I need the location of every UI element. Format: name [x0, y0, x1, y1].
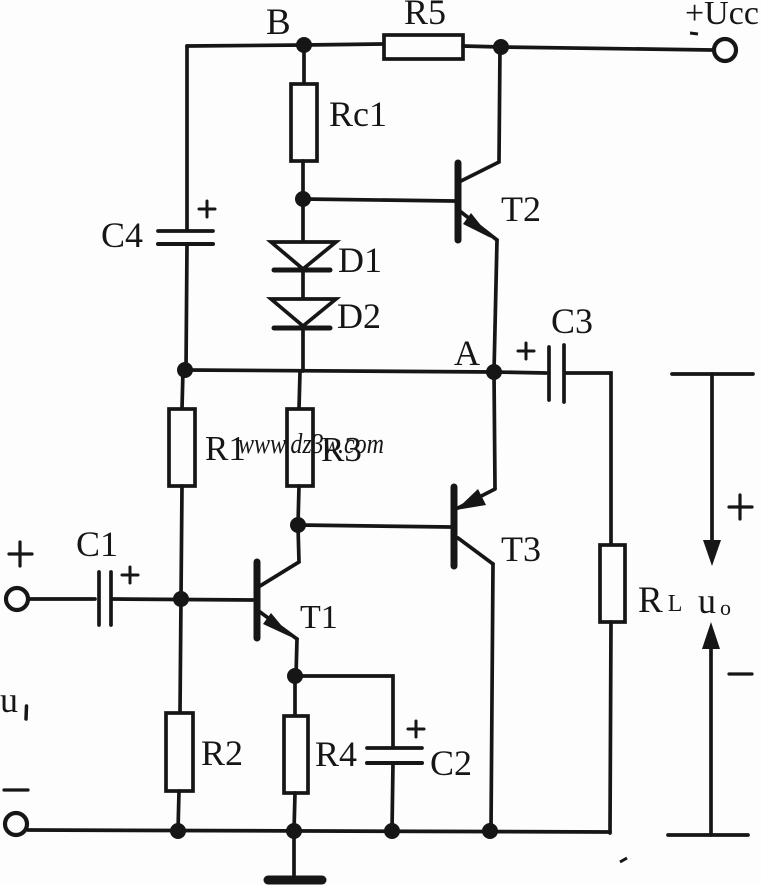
wire bottom rail [28, 830, 610, 832]
node junction dot T1 collector / T3 base [290, 517, 306, 533]
node junction dot T1 emitter [287, 668, 303, 684]
node junction dot at R5 right / T2 collector [493, 39, 509, 55]
svg-text:RL: RL [638, 580, 682, 621]
svg-text:C3: C3 [551, 301, 593, 341]
svg-text:R4: R4 [315, 734, 357, 774]
artifact dash below +Ucc [620, 33, 698, 862]
wire left branch down to C4 [185, 46, 189, 230]
wire D1 to D2 [301, 271, 305, 299]
svg-text:+Ucc: +Ucc [685, 0, 759, 32]
svg-text:R5: R5 [404, 0, 446, 32]
node A junction dot [486, 364, 502, 380]
svg-text:B: B [266, 2, 291, 43]
minus sign u_o [729, 672, 752, 675]
svg-text:C1: C1 [76, 524, 118, 564]
voltage indicator u_o bottom bar [668, 833, 748, 837]
plus sign input [9, 542, 32, 566]
svg-text:C2: C2 [430, 743, 472, 783]
svg-text:T1: T1 [300, 599, 338, 636]
wire node line to R3 [299, 372, 300, 409]
node junction dot ground on rail [286, 823, 302, 839]
wire D2 to node A line [301, 329, 305, 371]
svg-text:T2: T2 [501, 189, 541, 229]
node B junction dot [296, 37, 312, 53]
resistor R5 [384, 35, 463, 59]
wire junction down to R2 [180, 599, 181, 713]
wire C4 to node line [186, 245, 187, 370]
svg-text:u: u [0, 680, 18, 720]
svg-text:R3: R3 [321, 430, 362, 469]
wire B down to Rc1 [302, 45, 306, 84]
capacitor C1 [99, 567, 138, 625]
wire C1 to T1 base [113, 599, 253, 600]
wire top rail left segment (B rail to C4 branch) [187, 45, 305, 46]
svg-text:R2: R2 [201, 733, 243, 773]
wire R3 to T1 collector junction [298, 486, 299, 525]
wire Rc1 to diode junction [301, 161, 305, 199]
terminal input bottom [5, 813, 27, 835]
resistor R2 [166, 713, 193, 791]
wire T3 base [298, 525, 450, 527]
wire C3 to RL [566, 373, 611, 545]
wire emitter junction to C2 [295, 676, 393, 747]
svg-text:A: A [454, 333, 480, 373]
capacitor C2 [367, 721, 424, 763]
node junction dot left (C4/R1) [177, 362, 193, 378]
resistor Rc1 [291, 84, 317, 161]
svg-text:Rc1: Rc1 [329, 94, 387, 134]
capacitor C4 [158, 201, 215, 244]
ground [268, 831, 322, 880]
resistor R3 [287, 409, 313, 486]
wire junction to D1 [301, 199, 305, 242]
wire R4 to bottom rail [294, 793, 295, 831]
node junction dot C1/R1/R2 [173, 591, 189, 607]
node junction dot C2 on rail [384, 823, 400, 839]
transistor T3 [454, 372, 495, 831]
plus sign u_o [729, 495, 752, 519]
wire R5 to collector junction [463, 46, 501, 47]
wire T1 emitter to R4 [293, 676, 297, 716]
minus sign input [4, 788, 28, 791]
voltage indicator u_o up arrow [702, 622, 720, 835]
voltage indicator u_o down arrow [703, 374, 721, 566]
wire R1 to C1 junction [181, 486, 182, 599]
svg-text:C4: C4 [101, 215, 143, 255]
svg-text:www.dz3w.com: www.dz3w.com [238, 429, 384, 460]
node junction dot T3 collector on rail [482, 823, 498, 839]
voltage indicator u_o top bar [672, 372, 753, 376]
diode D1 [271, 242, 336, 270]
node junction dot Rc1/D1/T2-base [295, 191, 311, 207]
wire node A horizontal line [186, 370, 494, 372]
transistor T2 [458, 47, 500, 372]
wire C2 to bottom rail [392, 763, 393, 831]
svg-text:T3: T3 [501, 529, 541, 569]
resistor R4 [284, 716, 308, 793]
artifact speck bottom right [620, 858, 627, 862]
svg-text:uo: uo [698, 581, 731, 621]
capacitor C3 [494, 343, 564, 402]
wire RL to bottom rail [610, 622, 611, 833]
label u_i subscript tick [24, 706, 28, 719]
wire R2 to bottom rail [178, 791, 179, 831]
diode D2 [271, 299, 336, 328]
wire T2 base [303, 199, 454, 201]
transistor T1 [257, 526, 299, 676]
resistor R1 [169, 409, 195, 486]
wire node line to R1 [182, 370, 183, 409]
svg-text:D2: D2 [337, 296, 381, 336]
terminal +Ucc [714, 39, 736, 61]
resistor RL [600, 545, 625, 622]
wire input to C1 [28, 597, 95, 601]
wire junction to +Ucc terminal [501, 47, 712, 50]
node junction dot R2 on rail [170, 823, 186, 839]
wire B to R5 [305, 44, 385, 45]
terminal input top [6, 588, 28, 610]
svg-text:D1: D1 [338, 240, 382, 280]
